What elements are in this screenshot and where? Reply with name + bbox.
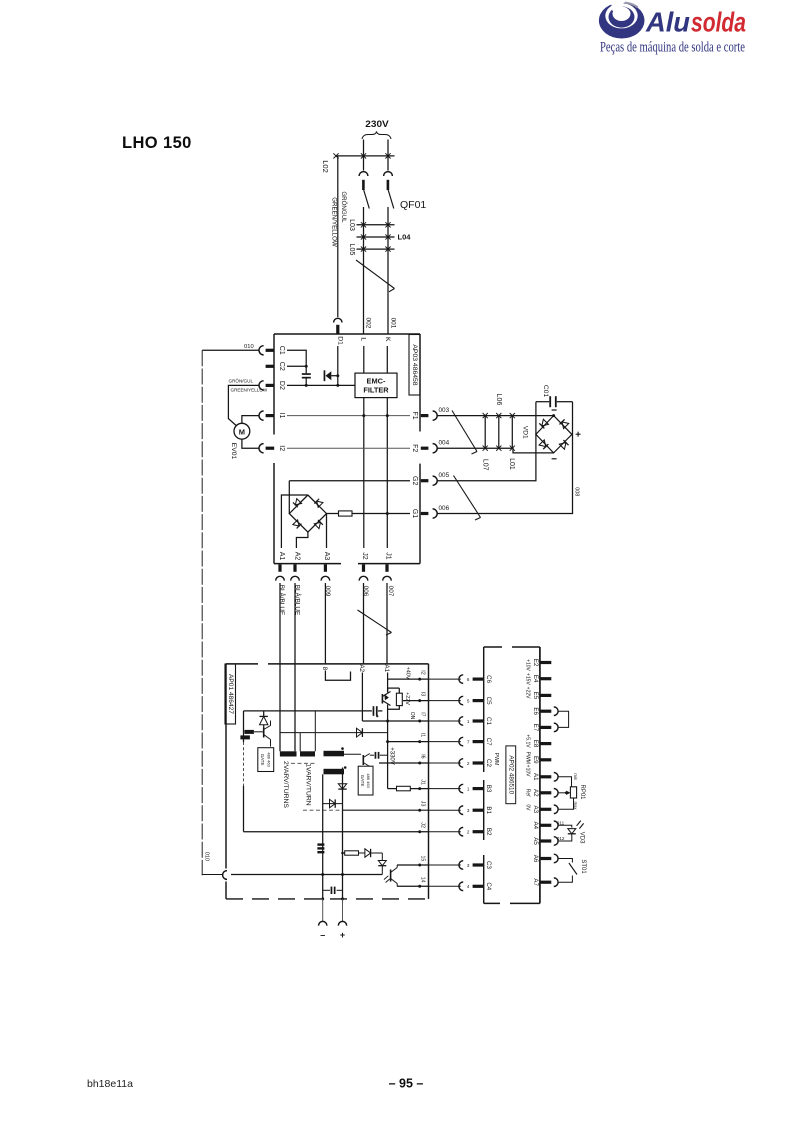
- inductor row L05: [357, 248, 395, 250]
- svg-text:VD1: VD1: [521, 426, 528, 439]
- gate module 2: [358, 766, 373, 795]
- slash 005-006: [454, 476, 481, 518]
- bridge minus top mark: [552, 409, 557, 411]
- wire 010 long: [201, 350, 203, 875]
- wire link to C3: [429, 864, 461, 866]
- terminal A6 grommet: [540, 857, 551, 860]
- svg-text:VD3: VD3: [579, 832, 585, 844]
- wire 006 drop: [363, 583, 365, 664]
- terminal E9 grommet: [540, 758, 551, 761]
- breaker QF01 pole right contact bar: [387, 180, 390, 190]
- svg-text:L06: L06: [495, 394, 502, 406]
- transistor Q3: [363, 754, 370, 767]
- terminal grommet x=363.5: [362, 564, 365, 571]
- connector pin 5 for C5: [459, 696, 463, 705]
- svg-text:2: 2: [467, 761, 470, 766]
- gate vertical to W2: [314, 711, 316, 751]
- terminal C4 grommet: [473, 885, 484, 888]
- row J2 output: [244, 831, 429, 833]
- terminal E7 grommet: [540, 726, 551, 729]
- connector A5: [554, 837, 558, 846]
- svg-text:QF01: QF01: [400, 199, 426, 211]
- diode D2 left: [260, 716, 268, 724]
- transistor Q2 left: [254, 721, 271, 747]
- svg-text:+22V: +22V: [525, 687, 531, 699]
- svg-text:–: –: [320, 930, 325, 940]
- switch ST01 blade: [569, 863, 577, 875]
- row I2-F2 inside: [287, 447, 410, 449]
- diode row horizontal low: [323, 803, 343, 805]
- svg-text:J2: J2: [419, 822, 425, 828]
- diode opto feed: [359, 852, 365, 854]
- terminal A1 grommet: [540, 775, 551, 778]
- svg-text:A2: A2: [532, 789, 539, 797]
- opto LED: [381, 853, 383, 861]
- slash 003-004: [452, 411, 477, 452]
- row 14 output: [397, 885, 429, 887]
- breaker QF01 pole left blade: [364, 190, 370, 209]
- terminal B2 grommet: [473, 830, 484, 833]
- svg-text:E4: E4: [532, 675, 539, 683]
- svg-text:14: 14: [419, 877, 425, 883]
- svg-text:K: K: [384, 337, 391, 342]
- svg-text:1: 1: [467, 719, 470, 724]
- label box AP02 486510: [506, 746, 516, 804]
- svg-text:Alu: Alu: [645, 7, 690, 38]
- svg-text:J3: J3: [419, 801, 425, 807]
- row G2 inside: [289, 480, 410, 482]
- wire 009 drop: [324, 583, 326, 664]
- row I2 +40V output: [388, 678, 429, 680]
- terminal I2: [259, 444, 264, 453]
- wire link to C2: [429, 762, 461, 764]
- svg-text:L07: L07: [482, 459, 489, 471]
- wire 010 to C1: [202, 349, 259, 351]
- gate module 1: [258, 748, 274, 772]
- svg-text:AP03 486458: AP03 486458: [411, 344, 418, 385]
- wire A1 blue: [279, 583, 281, 751]
- svg-text:F2: F2: [411, 444, 418, 452]
- row 15 output: [397, 864, 429, 866]
- terminal A5 grommet: [540, 839, 551, 842]
- svg-text:7: 7: [467, 739, 470, 744]
- svg-text:PWM: PWM: [493, 753, 499, 766]
- svg-text:D2: D2: [278, 381, 285, 390]
- svg-text:LHO 150: LHO 150: [122, 134, 192, 152]
- wire A7 switch: [558, 876, 572, 883]
- svg-text:+10V: +10V: [525, 659, 531, 671]
- wire 007 drop: [386, 583, 388, 664]
- svg-text:C1: C1: [485, 717, 492, 725]
- terminal C3 grommet: [473, 863, 484, 866]
- svg-text:J1: J1: [419, 779, 425, 785]
- svg-text:min: min: [573, 773, 578, 780]
- svg-text:+330V: +330V: [389, 747, 395, 765]
- svg-text:002: 002: [364, 318, 371, 329]
- svg-text:J1: J1: [385, 552, 392, 560]
- diode VD on plus rail: [338, 784, 346, 789]
- terminal E6 grommet: [540, 710, 551, 713]
- svg-text:I1: I1: [278, 413, 285, 419]
- terminal connector x=363.5: [359, 576, 368, 580]
- svg-text:3: 3: [467, 863, 470, 868]
- wire L below filter: [363, 398, 365, 548]
- connector A7: [554, 878, 558, 887]
- svg-text:230V: 230V: [365, 119, 389, 130]
- svg-text:L02: L02: [321, 160, 330, 173]
- terminal E5 grommet: [540, 694, 551, 697]
- bridge minus bottom mark: [552, 458, 557, 460]
- wire 003: [438, 415, 554, 417]
- svg-text:4: 4: [467, 884, 470, 889]
- T core dash horizontal: [291, 762, 317, 764]
- svg-text:E8: E8: [532, 740, 539, 748]
- bridge diodes box1: [293, 499, 323, 529]
- row I6 output: [379, 762, 429, 764]
- svg-text:A2: A2: [358, 665, 365, 673]
- svg-text:AP02 486510: AP02 486510: [507, 755, 514, 794]
- wire mains left drop: [363, 140, 365, 171]
- mid horizontal row R1: [280, 732, 388, 734]
- logo text Alusolda: [645, 7, 746, 38]
- svg-text:B2: B2: [485, 828, 492, 836]
- wire A3 to pot: [558, 798, 573, 809]
- svg-text:004: 004: [439, 440, 450, 447]
- board AP02 486510 outline: [484, 647, 540, 903]
- terminal D1 connector: [334, 318, 342, 322]
- connector E6: [554, 707, 558, 716]
- svg-text:+22V: +22V: [404, 692, 410, 705]
- svg-text:8: 8: [321, 667, 328, 671]
- terminal A3 grommet: [540, 808, 551, 811]
- svg-text:max: max: [573, 802, 578, 811]
- svg-text:GATE: GATE: [360, 775, 365, 787]
- svg-text:GRÖNGUL: GRÖNGUL: [340, 191, 347, 223]
- row G1 inside: [327, 513, 339, 515]
- inductor row L03: [357, 224, 395, 226]
- row I1-F1 inside: [287, 415, 410, 417]
- connector A1: [554, 773, 558, 782]
- wire A6 switch: [558, 859, 572, 863]
- terminal C2 grommet: [473, 761, 484, 764]
- svg-text:F1: F1: [411, 412, 418, 420]
- svg-text:RP01: RP01: [579, 784, 585, 800]
- svg-text:0V: 0V: [525, 804, 531, 811]
- svg-text:B3: B3: [485, 785, 492, 793]
- svg-text:ST01: ST01: [580, 859, 586, 874]
- wire minus rail: [322, 774, 324, 899]
- capacitor at Q3: [370, 754, 374, 756]
- svg-text:EMC-: EMC-: [367, 377, 386, 386]
- svg-text:005: 005: [439, 472, 450, 479]
- inductor row L04: [357, 236, 395, 238]
- svg-text:I3: I3: [419, 692, 425, 696]
- wire motor to I2: [242, 439, 259, 448]
- label box AP03 486458: [409, 335, 420, 396]
- svg-text:J2: J2: [361, 552, 368, 560]
- wire link to C5: [429, 700, 461, 702]
- capacitor C on C1-D2 branch: [302, 373, 311, 375]
- svg-text:+40V: +40V: [404, 667, 410, 680]
- svg-text:E9: E9: [532, 756, 539, 764]
- inductor L01: [511, 416, 513, 449]
- wire link to C1: [429, 720, 461, 722]
- wire L drop: [363, 346, 365, 373]
- breaker QF01 pole right fixed contact: [384, 172, 393, 176]
- svg-text:I2: I2: [419, 670, 425, 674]
- svg-text:006: 006: [439, 505, 450, 512]
- svg-text:I2: I2: [278, 445, 285, 451]
- terminal A7 grommet: [540, 881, 551, 884]
- svg-text:+: +: [340, 930, 345, 940]
- svg-text:A3: A3: [532, 806, 539, 814]
- svg-text:C6: C6: [485, 675, 492, 683]
- svg-text:2: 2: [467, 830, 470, 835]
- svg-text:C3: C3: [485, 861, 492, 869]
- connector A2: [554, 789, 558, 798]
- junction 003 bridge: [552, 414, 555, 417]
- junction D1 suppressor: [336, 374, 339, 377]
- svg-text:C01: C01: [542, 385, 549, 397]
- inductor L06: [498, 416, 500, 449]
- wire 005: [438, 402, 536, 481]
- wire W3 to Q3 base: [344, 753, 361, 755]
- row J3 output: [343, 809, 429, 811]
- svg-text:ON: ON: [409, 712, 415, 720]
- wire IGBT collector: [387, 688, 389, 692]
- connector pin 2 for C2: [459, 759, 463, 768]
- connector pin 7 for C7: [459, 737, 463, 746]
- junction arrows on tap line: [333, 153, 338, 158]
- terminal B3 grommet: [473, 787, 484, 790]
- row C net: [231, 874, 382, 876]
- slash 006-007: [358, 610, 392, 633]
- terminal grommet x=387: [385, 564, 388, 571]
- T1 core dash: [243, 742, 245, 786]
- wire link to B1: [429, 809, 461, 811]
- svg-text:2VARV/TURNS: 2VARV/TURNS: [282, 761, 289, 808]
- row I7 from A2: [362, 720, 428, 722]
- svg-text:+15V: +15V: [525, 673, 531, 685]
- wire A2 blue: [294, 583, 296, 751]
- wire link to C7: [429, 741, 461, 743]
- LED rays: [577, 821, 581, 826]
- diode on row R1: [357, 728, 363, 737]
- wire link to B3: [429, 788, 461, 790]
- terminal C2: [266, 365, 275, 368]
- svg-text:010: 010: [244, 344, 254, 350]
- svg-text:008: 008: [574, 487, 580, 496]
- optocoupler transistor: [384, 865, 397, 886]
- wire bridge bottom to A2: [296, 532, 308, 548]
- svg-text:PWM: PWM: [525, 752, 531, 764]
- terminal connector x=295: [291, 576, 300, 580]
- winding W2: [300, 751, 315, 756]
- board AP03 486458 outline: [274, 334, 420, 564]
- svg-text:A4: A4: [532, 822, 539, 830]
- svg-text:1VARV/TURN: 1VARV/TURN: [305, 763, 312, 806]
- LED VD3: [568, 829, 576, 834]
- svg-text:bh18e11a: bh18e11a: [87, 1078, 133, 1090]
- junction minus rail bottom: [321, 897, 324, 900]
- svg-text:011: 011: [557, 820, 565, 825]
- terminal D2: [259, 381, 264, 390]
- board AP01 486427 outline: [226, 664, 429, 899]
- EMC filter block: [355, 373, 397, 398]
- wire to plus terminal: [342, 899, 344, 922]
- svg-text:GATE: GATE: [260, 754, 265, 766]
- bridge rectifier in box1: [289, 495, 326, 532]
- wire D2 row inside: [287, 384, 355, 386]
- wire G2 to bridge: [288, 481, 290, 514]
- terminal A2 grommet: [540, 791, 551, 794]
- terminal E8 grommet: [540, 742, 551, 745]
- W2 stub: [299, 733, 301, 752]
- terminal minus: [319, 921, 327, 925]
- connector pin 1 for B3: [459, 784, 463, 793]
- wire link to C6: [429, 678, 461, 680]
- svg-text:E7: E7: [532, 724, 539, 732]
- wire to resistor R22 top: [388, 687, 400, 689]
- svg-text:G1: G1: [411, 509, 418, 518]
- terminal grommet x=325.4: [324, 564, 327, 571]
- svg-text:L04: L04: [398, 233, 412, 242]
- junction K-G1: [386, 512, 389, 515]
- connector pin 2 for B2: [459, 827, 463, 836]
- wire mains right drop: [387, 140, 389, 171]
- potentiometer RP01: [570, 787, 576, 798]
- connector A3: [554, 805, 558, 814]
- labels right rail voltages: [525, 659, 531, 811]
- svg-text:AP01 486427: AP01 486427: [227, 674, 234, 714]
- resistor +22V: [396, 693, 402, 705]
- row I1 output: [388, 741, 429, 743]
- svg-text:A3: A3: [323, 552, 330, 561]
- terminal connector x=280: [276, 576, 285, 580]
- wire IGBT emitter rail +330V: [387, 705, 389, 789]
- svg-text:A1: A1: [532, 773, 539, 781]
- terminal C1: [259, 346, 264, 355]
- svg-text:FILTER: FILTER: [363, 386, 389, 395]
- breaker QF01 pole left fixed contact: [359, 172, 368, 176]
- connector E7: [554, 723, 558, 732]
- svg-text:003: 003: [439, 407, 450, 414]
- bridge plus mark: [576, 433, 581, 435]
- resistor on G1 row: [339, 511, 353, 516]
- svg-text:GREEN/YELLOW: GREEN/YELLOW: [331, 197, 338, 247]
- svg-text:A7: A7: [532, 878, 539, 886]
- svg-text:486 463: 486 463: [366, 773, 371, 788]
- breaker QF01 pole right blade: [388, 190, 394, 209]
- svg-text:C2: C2: [278, 362, 285, 371]
- svg-text:486 463: 486 463: [266, 752, 271, 767]
- wire motor to I1: [242, 416, 259, 424]
- bridge VD1 diodes: [539, 419, 569, 449]
- svg-text:E2: E2: [532, 659, 539, 667]
- svg-text:1: 1: [467, 786, 470, 791]
- wire L02 green/yellow down: [337, 156, 339, 317]
- svg-text:Peças de máquina de solda e co: Peças de máquina de solda e corte: [600, 40, 745, 56]
- wire K below filter: [386, 398, 388, 548]
- terminal C6 grommet: [473, 678, 484, 681]
- terminal grommet x=280: [278, 564, 281, 571]
- gate drive row: [244, 710, 372, 712]
- svg-text:010: 010: [203, 852, 209, 861]
- svg-text:D1: D1: [337, 336, 344, 345]
- svg-text:3: 3: [467, 808, 470, 813]
- svg-text:C1: C1: [278, 346, 285, 355]
- left gate-drive vertical: [243, 711, 245, 742]
- svg-text:I1: I1: [419, 733, 425, 737]
- junction C2: [305, 365, 308, 368]
- terminal connector x=325.4: [321, 576, 330, 580]
- svg-text:B1: B1: [485, 806, 492, 814]
- terminal plus: [338, 921, 346, 925]
- breaker QF01 pole right lower conductor: [387, 207, 389, 334]
- suppressor diode on D1: [324, 370, 326, 381]
- svg-text:E6: E6: [532, 707, 539, 715]
- wire resistor bottom: [388, 706, 400, 710]
- wire plus rail: [342, 768, 344, 899]
- wire link to C4: [429, 885, 461, 887]
- breaker QF01 pole left lower conductor: [363, 207, 365, 334]
- svg-text:5: 5: [467, 698, 470, 703]
- capacitor across output: [323, 889, 330, 891]
- wire A2 wiper: [558, 792, 566, 794]
- terminal C7 grommet: [473, 740, 484, 743]
- svg-text:C5: C5: [485, 697, 492, 705]
- connector A4: [554, 821, 558, 830]
- wire C2 branch: [287, 365, 306, 367]
- terminal B1 grommet: [473, 809, 484, 812]
- connector pin 3 for C3: [459, 861, 463, 870]
- two-conductor slash mark: [356, 260, 395, 289]
- row J1 output with resistor: [388, 788, 397, 790]
- svg-text:A1: A1: [278, 552, 285, 561]
- label box AP01 486427: [225, 664, 236, 724]
- connector A6: [554, 854, 558, 863]
- svg-text:+10V: +10V: [525, 765, 531, 777]
- connector pin 1 for C1: [459, 717, 463, 726]
- terminal C1 grommet: [473, 719, 484, 722]
- svg-text:15: 15: [419, 855, 425, 861]
- terminal A4 grommet: [540, 824, 551, 827]
- bridge rectifier VD1: [536, 416, 572, 453]
- connector pin 4 for C4: [459, 882, 463, 891]
- resistor opto feed: [343, 852, 345, 854]
- svg-text:A1: A1: [383, 665, 390, 673]
- motor EV01: [234, 423, 250, 439]
- svg-text:A2: A2: [293, 552, 300, 561]
- svg-text:L01: L01: [508, 458, 515, 470]
- capacitor on gate row: [373, 706, 375, 716]
- motor EV01 wiring from D2: [228, 385, 259, 425]
- wire A5 from LED: [558, 834, 572, 841]
- winding W1 primary: [280, 751, 297, 756]
- wire K drop: [386, 346, 388, 373]
- svg-text:C7: C7: [485, 738, 492, 746]
- svg-text:solda: solda: [691, 7, 746, 38]
- svg-text:L05: L05: [348, 244, 355, 256]
- terminal connector x=387: [383, 576, 392, 580]
- svg-text:GRÖN/GUL: GRÖN/GUL: [229, 378, 254, 384]
- svg-text:Ref: Ref: [525, 789, 531, 797]
- row I3 +22V output: [403, 700, 429, 702]
- wire link to B2: [429, 831, 461, 833]
- breaker QF01 pole left contact bar: [362, 180, 365, 190]
- svg-text:+5.1V: +5.1V: [525, 734, 531, 748]
- svg-text:M: M: [239, 427, 245, 436]
